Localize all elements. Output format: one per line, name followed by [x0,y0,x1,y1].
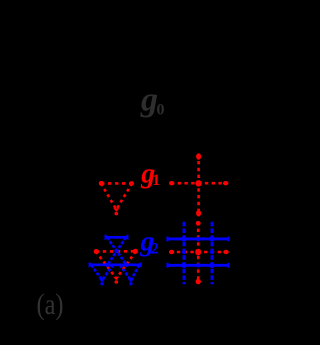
wire grid middle horizontal (red) [170,251,228,254]
wire grid bottom horizontal [168,264,228,267]
wire blue left-triangle right slant [102,265,113,280]
node plus-g1 top end [196,153,201,159]
node grid bottom-right junction [209,263,214,268]
grid g2 (blue lattice with red center cross) [168,222,228,284]
svg-text:g: g [140,82,158,119]
node plus-g1 left end [169,181,174,185]
wire blue right-triangle left slant [120,265,131,280]
triangle overlay g2 (red dashed, connects blue triangles) [96,251,136,278]
wire blue diagonal left-to-right [107,237,126,264]
wire blue right-triangle right slant [131,265,139,280]
wire red overlay right slant [116,251,136,278]
node plus-g1 center [195,180,201,186]
wire plus-g1 vertical arm [197,154,200,215]
node blue long-line left arrow [89,262,95,268]
node red overlay left corner [94,249,99,254]
wire blue top edge [107,236,126,239]
node blue top-left arrow [105,235,111,241]
node triangle-g1 top-left corner [99,181,104,186]
node grid bottom-left junction [181,263,186,268]
node grid red row left end [169,250,174,254]
node grid mid-left junction [182,250,186,254]
node grid center (red) [195,249,201,256]
wire blue long horizontal [90,263,141,266]
node grid top row left arrow [166,236,172,242]
wire triangle-g1 left slant [101,183,116,209]
wire red overlay left slant [96,252,117,279]
node blue long-line right arrow [136,262,142,268]
node grid bottom row left arrow [166,263,172,269]
node grid top-mid junction [196,237,200,241]
node grid red column top end [196,221,201,226]
node grid bottom row right arrow [224,263,230,269]
node triangle-g1 bottom vertex marker [113,208,119,215]
svg-text:2: 2 [151,241,159,258]
wire triangle-g1 top edge [101,182,132,185]
node blue left-triangle bottom marker [99,279,105,282]
node blue inner-left junction [105,263,109,267]
wire blue left-triangle left slant [91,265,102,280]
node blue right-triangle bottom marker [128,279,134,282]
node grid bottom-mid junction [196,263,200,267]
node grid top-left junction [181,236,186,241]
node grid red row right end [223,250,228,254]
node plus-g1 right end [223,181,228,185]
wire grid right vertical [211,222,214,284]
node blue inner-right junction [124,263,128,267]
wire plus-g1 horizontal arm [171,182,227,185]
node red overlay right corner [133,249,138,254]
wire grid top horizontal [168,237,228,240]
label g1 [140,159,160,190]
wire grid middle vertical (red) [197,222,200,283]
triangle cluster g2 (blue dashed) [90,237,141,280]
node blue diagonals crossing [114,249,118,253]
node blue top-right arrow [122,235,128,241]
label g2 [140,227,159,258]
wire blue diagonal right-to-left [108,237,126,264]
node grid red column bottom end [196,279,201,284]
svg-text:1: 1 [152,172,160,189]
wire triangle-g1 right slant [116,183,132,209]
wire grid left vertical [183,222,186,284]
svg-text:0: 0 [157,102,165,119]
node triangle-g1 top-right corner [129,181,134,186]
node grid top-right junction [209,236,214,241]
wire red overlay top edge [96,250,136,253]
node grid top row right arrow [224,236,230,242]
svg-text:(a): (a) [37,288,64,321]
node grid mid-right junction [210,250,214,254]
plus g1 (red dashed cross) [171,154,227,215]
node red overlay bottom marker [113,277,119,284]
triangle g1 (red dashed, downward) [101,183,132,209]
label g0 [140,82,165,119]
node plus-g1 bottom end [196,210,201,216]
